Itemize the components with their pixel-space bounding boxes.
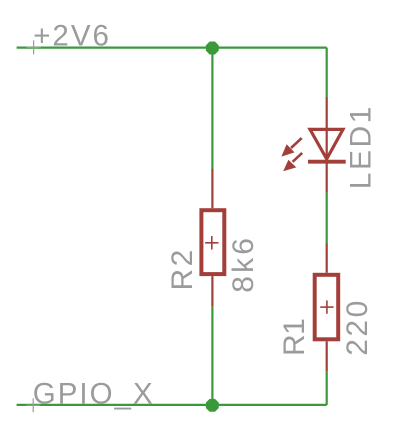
svg-text:GPIO_X: GPIO_X bbox=[33, 378, 155, 411]
wire right branch top vertical (green) bbox=[326, 48, 328, 97]
R1 bottom pin bbox=[326, 341, 328, 371]
wire LED1 to R1 (green) bbox=[326, 193, 328, 244]
net +2V6 top wire bbox=[17, 46, 327, 48]
LED1 cathode pin bbox=[326, 162, 328, 193]
net GPIO_X bottom wire bbox=[17, 404, 327, 406]
svg-text:R1: R1 bbox=[278, 316, 311, 356]
LED1 emission arrow upper bbox=[281, 138, 301, 157]
junction bottom bbox=[206, 399, 219, 412]
R2 bottom pin bbox=[211, 276, 213, 307]
wire R1 to bottom (green) bbox=[326, 371, 328, 405]
svg-text:+2V6: +2V6 bbox=[33, 19, 111, 52]
label origin cross +2V6 bbox=[27, 40, 41, 54]
LED1 cathode bar bbox=[308, 160, 346, 164]
LED1 diode triangle bbox=[310, 129, 343, 159]
svg-text:R2: R2 bbox=[166, 247, 199, 290]
resistor R2 body bbox=[201, 210, 224, 274]
wire middle branch lower (green) bbox=[211, 307, 213, 405]
R1 origin cross bbox=[320, 300, 333, 313]
svg-text:220: 220 bbox=[341, 298, 374, 356]
label origin cross GPIO_X bbox=[26, 398, 40, 412]
resistor R1 body bbox=[315, 275, 339, 340]
LED1 anode pin bbox=[326, 97, 328, 160]
R2 top pin bbox=[211, 169, 213, 208]
svg-text:8k6: 8k6 bbox=[227, 235, 260, 293]
svg-text:LED1: LED1 bbox=[345, 104, 378, 189]
wire middle branch upper (green) bbox=[211, 48, 213, 169]
LED1 emission arrow lower bbox=[283, 153, 302, 171]
R2 origin cross bbox=[205, 236, 218, 249]
junction top bbox=[206, 42, 219, 55]
R1 top pin bbox=[326, 244, 328, 273]
